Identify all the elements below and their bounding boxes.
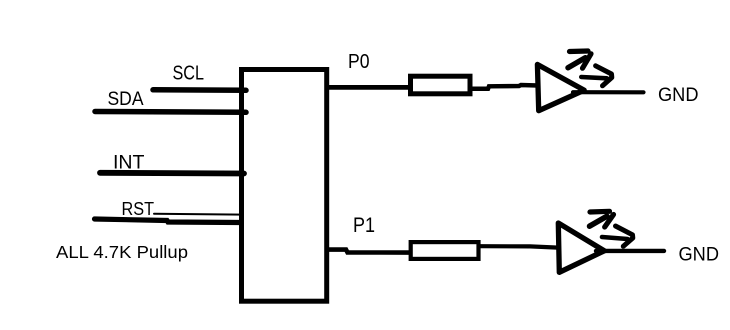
svg-text:P1: P1 (353, 214, 375, 237)
wire R2 to LED D2 (481, 246, 559, 247)
LED D2 emission arrow 1 head bar (590, 209, 610, 215)
wire RST thick segment (95, 219, 241, 223)
LED D1 emission arrow 2 head (596, 66, 612, 86)
wire R1 to LED D1 (472, 85, 538, 89)
LED D1 emission arrow 2 shaft (581, 77, 607, 78)
LED D2 emission arrow 2 shaft (602, 237, 628, 239)
LED D1 emission arrow 1 shaft (568, 58, 585, 68)
wire SDA to U1 (95, 109, 246, 115)
wire SCL to U1 (153, 87, 246, 93)
svg-text:ALL 4.7K Pullup: ALL 4.7K Pullup (56, 242, 188, 262)
LED D1 emission arrow 1 head bar (570, 48, 589, 54)
LED D2 emission arrow 1 shaft (590, 216, 608, 226)
wire LED D1 to GND (573, 90, 644, 94)
svg-text:RST: RST (122, 199, 155, 219)
LED D1 emission arrow 1 head descender (583, 54, 592, 68)
resistor R2 (411, 242, 479, 259)
wire U1 P1 to resistor R2 (326, 250, 414, 253)
svg-text:GND: GND (658, 85, 699, 106)
wire LED D2 to GND (596, 249, 664, 253)
LED D2 emission arrow 1 head descender (605, 215, 614, 228)
svg-text:SCL: SCL (173, 63, 205, 85)
wire RST thin segment to U1 (154, 213, 243, 216)
IC U1 (I2C expander box) (242, 70, 327, 302)
resistor R1 (411, 76, 471, 94)
wire INT to U1 (100, 170, 244, 176)
svg-text:SDA: SDA (108, 89, 144, 110)
svg-text:GND: GND (679, 245, 720, 266)
LED D2 emission arrow 2 head (616, 226, 633, 246)
LED D2 triangle (558, 223, 604, 272)
LED D1 triangle (537, 64, 584, 110)
wire U1 P0 to resistor R1 (326, 85, 409, 90)
svg-text:P0: P0 (348, 50, 370, 73)
